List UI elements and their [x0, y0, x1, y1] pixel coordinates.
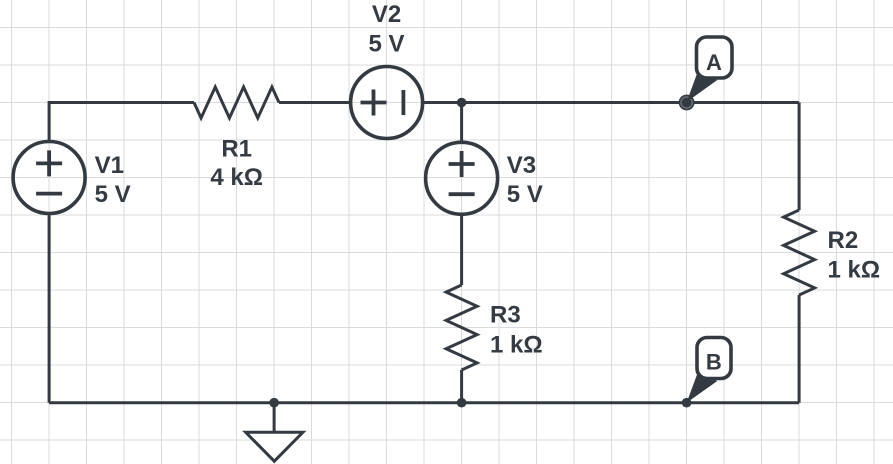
svg-text:R2: R2	[828, 227, 859, 254]
wire R3 to bottom wire	[460, 370, 463, 403]
svg-text:4 kΩ: 4 kΩ	[210, 164, 263, 191]
wire top-left: V1 top to R1	[49, 103, 194, 142]
voltage source V2	[351, 67, 423, 139]
resistor R2	[784, 210, 815, 295]
callout A	[687, 37, 732, 102]
bottom wire	[49, 401, 799, 404]
svg-text:V1: V1	[95, 152, 124, 179]
voltage source V1	[13, 142, 85, 214]
junction dot V3 top	[457, 98, 467, 108]
callout B	[687, 338, 731, 403]
voltage source V3	[426, 142, 498, 214]
svg-text:R1: R1	[221, 136, 252, 163]
svg-text:1 kΩ: 1 kΩ	[490, 332, 543, 359]
svg-text:5 V: 5 V	[95, 181, 131, 208]
ground	[246, 432, 303, 461]
ground stub	[273, 403, 276, 433]
svg-text:V3: V3	[507, 152, 536, 179]
svg-text:A: A	[706, 50, 722, 75]
svg-text:R3: R3	[490, 302, 521, 329]
wire V2 to right corner (through node A)	[423, 101, 799, 104]
node B dot	[682, 398, 692, 408]
wire right side down to R2	[798, 103, 801, 211]
junction dot ground	[269, 398, 279, 408]
wire left side up to V1	[48, 214, 51, 403]
wire V3 to R3	[460, 214, 463, 286]
svg-text:V2: V2	[372, 1, 401, 28]
svg-text:5 V: 5 V	[507, 181, 543, 208]
svg-text:5 V: 5 V	[368, 30, 404, 57]
wire junction to V3	[460, 103, 463, 142]
wire R1 to V2	[279, 101, 351, 104]
svg-text:1 kΩ: 1 kΩ	[828, 257, 881, 284]
node A dot	[679, 95, 695, 111]
junction dot R3 bottom	[457, 398, 467, 408]
svg-text:B: B	[706, 350, 722, 375]
resistor R1	[194, 87, 279, 118]
resistor R3	[446, 285, 477, 370]
wire R2 to bottom-right corner	[798, 295, 801, 403]
